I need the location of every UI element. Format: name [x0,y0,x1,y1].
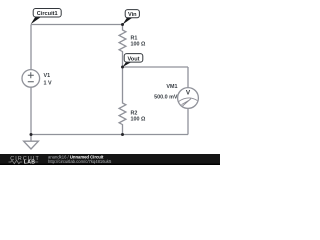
svg-text:LAB: LAB [24,160,36,165]
wire: V1 bottom terminal down to ground junction [30,87,32,134]
node junction dot ground [30,133,33,136]
node junction dot Vin [121,23,124,26]
svg-text:Vin: Vin [128,12,137,18]
resistor R1 [119,25,126,68]
voltmeter VM1 [178,88,199,109]
svg-text:500.0 mV: 500.0 mV [154,95,178,101]
node label Circuit1 [31,9,62,25]
ground [30,135,32,142]
wire: voltmeter branch vertical [187,67,189,135]
svg-text:100 Ω: 100 Ω [131,116,146,122]
svg-text:http://circuitlab.com/c/7kq481: http://circuitlab.com/c/7kq4816uk5 [48,159,112,164]
node junction dot Vout [121,66,124,69]
node label Vout [123,54,143,67]
svg-text:Vout: Vout [127,56,139,62]
voltage source V1 [22,70,40,88]
wire: left vertical from top corner down to V1 top terminal [30,25,32,70]
wire: bottom horizontal from ground junction to voltmeter branch [31,134,188,136]
svg-text:100 Ω: 100 Ω [131,42,146,48]
node label Vin [123,10,140,25]
svg-text:V1: V1 [44,73,51,79]
svg-text:1 V: 1 V [44,81,52,87]
node junction dot R2 bottom [121,133,124,136]
resistor R2 [119,67,126,135]
wire: Vout node to voltmeter branch horizontal [123,66,189,68]
footer CircuitLab logo [9,156,40,166]
wire: top horizontal from Circuit1 corner to Vin node [31,24,123,26]
svg-text:Circuit1: Circuit1 [37,11,58,17]
svg-text:VM1: VM1 [166,84,177,90]
svg-text:V: V [186,90,191,97]
footer bar [0,154,220,165]
